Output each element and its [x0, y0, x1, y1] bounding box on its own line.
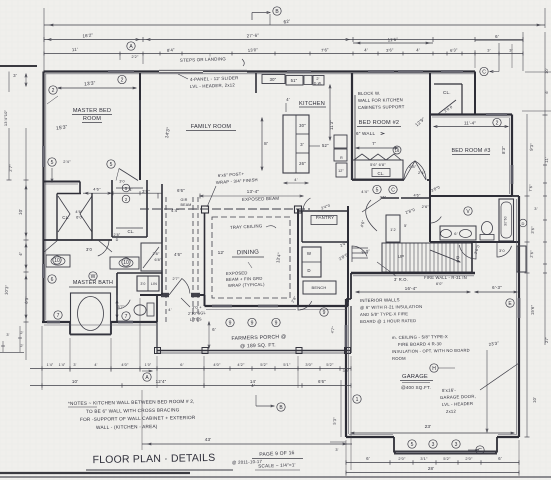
svg-text:5'6" 6'8": 5'6" 6'8"	[370, 162, 386, 167]
svg-text:D: D	[307, 268, 310, 273]
svg-text:3' R.O.: 3' R.O.	[394, 277, 408, 282]
sheet bottom-left dark edge	[0, 472, 190, 474]
svg-text:5': 5'	[404, 223, 407, 228]
svg-text:3'0": 3'0"	[343, 369, 350, 373]
svg-text:6'3": 6'3"	[450, 47, 458, 53]
master bed window west leader	[47, 96, 58, 104]
svg-text:PANTRY: PANTRY	[316, 215, 335, 220]
garage front left jog	[393, 437, 395, 453]
svg-text:11'6": 11'6"	[388, 37, 399, 43]
right dim verticals	[526, 114, 528, 437]
gir beam dashed line east pair	[192, 197, 194, 322]
svg-text:3'0: 3'0	[119, 180, 125, 184]
svg-text:2'10"SGL: 2'10"SGL	[188, 310, 207, 316]
slider door opening	[159, 70, 247, 72]
garage door sill (dark strip)	[394, 451, 497, 455]
garage west window	[345, 325, 348, 347]
svg-text:8': 8'	[264, 141, 268, 146]
svg-text:28': 28'	[428, 466, 434, 471]
block wall cabinets column	[334, 135, 347, 148]
svg-text:10'3": 10'3"	[4, 284, 10, 295]
svg-text:3'1": 3'1"	[420, 456, 428, 461]
master bed south wall + door opening 4'6	[44, 181, 80, 183]
vestibule 4'6 dim	[83, 192, 162, 194]
svg-text:5: 5	[376, 187, 379, 193]
garage 23-3 depth dim	[486, 350, 488, 430]
bedroom3 north wall	[430, 113, 512, 115]
garage west wall	[345, 299, 347, 437]
garage 6'-3 dim	[475, 291, 517, 293]
svg-text:7': 7'	[372, 141, 376, 146]
svg-text:4': 4'	[168, 307, 171, 312]
hall south wall y=198	[381, 197, 399, 199]
svg-text:4': 4'	[294, 177, 297, 182]
svg-text:BED ROOM #2: BED ROOM #2	[359, 120, 399, 126]
svg-text:FAMILY ROOM: FAMILY ROOM	[191, 124, 232, 130]
bench	[303, 281, 336, 294]
svg-text:3: 3	[455, 442, 458, 448]
master bed corner door leaf	[119, 169, 138, 181]
dining west wall lower	[204, 295, 206, 306]
svg-text:BEAM: BEAM	[181, 203, 192, 207]
svg-text:5'2": 5'2"	[260, 362, 268, 367]
43' overall dim	[142, 443, 352, 445]
svg-text:LIN: LIN	[151, 282, 157, 286]
svg-text:13'3": 13'3"	[84, 80, 96, 87]
master walk-in closet zigzag (hanging)	[58, 196, 92, 232]
washer dryer closet	[302, 247, 321, 277]
bath south wall inner line	[44, 324, 156, 326]
svg-text:9: 9	[323, 310, 326, 316]
svg-text:4': 4'	[94, 363, 97, 367]
svg-text:4': 4'	[251, 383, 255, 388]
3-RO leader	[377, 262, 396, 276]
left dim vertical main	[8, 128, 10, 180]
hall east wall to entry	[161, 273, 163, 295]
svg-text:2: 2	[496, 120, 499, 126]
svg-text:3'7": 3'7"	[117, 304, 125, 309]
svg-text:8'4": 8'4"	[167, 47, 175, 53]
svg-text:4'0": 4'0"	[213, 362, 221, 367]
windows master bath south	[47, 321, 60, 324]
window kitchen north	[287, 70, 311, 73]
bath2 vanity	[440, 226, 476, 240]
svg-text:@ 189 SQ. FT.: @ 189 SQ. FT.	[240, 342, 276, 349]
svg-text:D: D	[116, 238, 119, 242]
svg-text:W: W	[307, 251, 312, 256]
garage entry landing steps	[352, 247, 368, 249]
garage front wall right segment	[497, 436, 519, 438]
svg-text:2'4": 2'4"	[418, 170, 426, 175]
svg-text:26": 26"	[299, 161, 306, 166]
exterior wall NE jog vertical at x=475	[474, 72, 476, 116]
garage 23' dim	[351, 432, 514, 434]
dim guides left-bottom	[41, 326, 43, 390]
svg-text:3'0 +: 3'0 +	[192, 304, 203, 310]
kitchen/bedroom2 wall (6 inch)	[351, 73, 353, 180]
garage left horiz dim	[330, 441, 346, 443]
svg-text:4'6": 4'6"	[75, 209, 83, 214]
svg-text:BLOCK W.: BLOCK W.	[358, 91, 380, 96]
keynote B bottom	[277, 403, 285, 411]
staircase	[382, 243, 472, 272]
east wall jog at y=196	[512, 195, 519, 197]
porch post mid-east	[296, 348, 302, 354]
svg-text:7: 7	[125, 314, 128, 320]
svg-text:BOARD @ 1 HOUR RATED: BOARD @ 1 HOUR RATED	[360, 318, 416, 324]
svg-text:6" WALL: 6" WALL	[356, 131, 375, 136]
stair direction line	[430, 250, 460, 262]
svg-text:10: 10	[123, 260, 129, 266]
svg-text:12'4": 12'4"	[156, 379, 167, 384]
closet2 walls	[111, 180, 113, 237]
toilet (master)	[134, 305, 146, 315]
porch east edge	[350, 306, 352, 353]
svg-text:4'4": 4'4"	[361, 189, 369, 194]
svg-text:3': 3'	[6, 333, 9, 337]
svg-text:W: W	[91, 274, 96, 280]
svg-text:DINING: DINING	[237, 250, 260, 257]
svg-text:16'-4": 16'-4"	[405, 286, 418, 291]
svg-text:6'6": 6'6"	[318, 379, 326, 384]
family/kitchen wall stub	[255, 73, 257, 93]
svg-text:3': 3'	[335, 448, 338, 452]
svg-text:4': 4'	[286, 97, 290, 102]
svg-text:7'6": 7'6"	[321, 47, 329, 53]
svg-text:3: 3	[432, 442, 435, 448]
svg-text:1: 1	[356, 397, 359, 403]
svg-text:3'0": 3'0"	[305, 362, 313, 367]
top dim line row2	[44, 39, 523, 41]
dining exposed beam arrow	[248, 262, 252, 268]
hall door arcs	[362, 199, 381, 231]
svg-text:3': 3'	[73, 363, 76, 367]
svg-text:5: 5	[110, 162, 113, 168]
svg-text:CL.: CL.	[127, 229, 134, 234]
kitchen island 4ft dim	[284, 182, 308, 184]
kitchen island	[283, 115, 309, 173]
svg-text:15'6": 15'6"	[530, 304, 535, 315]
C keynote top right	[480, 67, 488, 75]
svg-text:3': 3'	[300, 142, 304, 147]
garden tub	[71, 293, 111, 334]
svg-text:6: 6	[51, 277, 54, 283]
garage bottom dim row2	[346, 472, 519, 474]
svg-text:62': 62'	[283, 19, 290, 25]
svg-text:1'0": 1'0"	[145, 363, 152, 367]
garage west wall upper jog	[346, 298, 351, 300]
bath toilet room walls	[117, 272, 162, 274]
svg-text:9: 9	[275, 320, 278, 326]
svg-text:7'6": 7'6"	[528, 184, 534, 192]
window NE corner	[441, 70, 463, 73]
garage keynotes	[408, 440, 416, 448]
svg-text:4': 4'	[364, 48, 368, 53]
porch post at entry	[202, 348, 208, 354]
bedroom3 wall inner lines	[432, 116, 510, 118]
svg-text:9'3": 9'3"	[529, 142, 535, 150]
kitchen 8' dim	[261, 118, 263, 170]
svg-text:6'6": 6'6"	[177, 188, 185, 193]
master closet west wall	[56, 194, 58, 241]
gir beam dashed line west	[165, 197, 167, 322]
svg-text:CL.: CL.	[62, 215, 69, 220]
keynote A top	[127, 42, 135, 50]
svg-text:AND 5/8" TYPE-X FIRE: AND 5/8" TYPE-X FIRE	[360, 311, 408, 317]
master bed 13'3 dim	[58, 87, 136, 89]
svg-text:CL.: CL.	[443, 90, 451, 95]
svg-text:16: 16	[395, 148, 400, 153]
svg-text:MASTER BED: MASTER BED	[73, 108, 111, 114]
hall west wall x=162	[161, 184, 163, 273]
tub alcove bump-out	[69, 322, 71, 335]
stair hall east wall	[471, 242, 473, 272]
dining south wall inner line	[206, 309, 296, 311]
svg-text:6': 6'	[545, 90, 549, 93]
svg-text:4'0": 4'0"	[121, 362, 129, 367]
svg-text:30": 30"	[299, 123, 306, 128]
svg-text:8'3": 8'3"	[501, 146, 506, 154]
svg-text:4'6": 4'6"	[413, 194, 421, 198]
dining south wall	[205, 305, 299, 307]
entry south wall w/ front door opening	[140, 294, 162, 296]
svg-text:11'-4": 11'-4"	[464, 121, 476, 126]
svg-text:3'0: 3'0	[140, 282, 145, 286]
keynote A bottom	[143, 373, 151, 381]
svg-text:2': 2'	[20, 344, 23, 348]
mud room south wall	[298, 305, 348, 307]
bedroom2 south wall with door	[352, 179, 404, 181]
svg-text:BENCH: BENCH	[311, 285, 326, 290]
garage door leader	[480, 363, 519, 390]
bath2 door	[430, 210, 441, 223]
svg-text:2: 2	[121, 77, 124, 83]
master closet east wall	[91, 193, 93, 240]
exterior wall top inner line	[45, 73, 474, 75]
garage wall inner lines	[348, 302, 350, 434]
svg-text:27': 27'	[544, 337, 549, 343]
sheet bottom edge line	[0, 476, 551, 478]
svg-text:6': 6'	[495, 34, 499, 39]
svg-text:UP: UP	[398, 254, 404, 259]
garage SE corner	[518, 431, 520, 437]
svg-text:3'6": 3'6"	[530, 226, 536, 234]
svg-text:5'1": 5'1"	[283, 362, 291, 367]
svg-text:23': 23'	[425, 424, 432, 430]
svg-text:D: D	[456, 255, 459, 260]
porch west edge	[156, 322, 158, 353]
bedroom2 door swing (double)	[404, 161, 426, 180]
master bath south wall right	[111, 321, 157, 323]
svg-text:6'0": 6'0"	[436, 282, 444, 286]
exterior wall west (master side)	[42, 72, 44, 323]
svg-text:5'3": 5'3"	[332, 417, 338, 425]
svg-text:10': 10'	[72, 379, 78, 384]
svg-text:2'6": 2'6"	[529, 250, 535, 258]
bedroom2 7' dim	[356, 147, 398, 149]
entry porch wall step	[156, 295, 158, 322]
front door jambs (dark)	[161, 293, 169, 297]
svg-text:3': 3'	[534, 206, 537, 211]
svg-text:10': 10'	[532, 397, 537, 403]
svg-text:13'0": 13'0"	[248, 47, 259, 53]
svg-text:9: 9	[251, 320, 254, 326]
svg-text:8'x16'-: 8'x16'-	[442, 387, 457, 392]
svg-text:ROOM: ROOM	[83, 116, 101, 122]
exterior wall east (bath2+garage)	[518, 196, 520, 431]
mud east exterior jog	[347, 299, 349, 306]
svg-text:GARAGE: GARAGE	[402, 374, 428, 380]
svg-text:C: C	[482, 69, 486, 75]
svg-text:KITCHEN: KITCHEN	[299, 101, 325, 107]
master bath north boundary	[44, 239, 112, 241]
garage side closet bump	[517, 246, 526, 272]
svg-text:3': 3'	[487, 48, 490, 53]
exposed beam line family/dining	[140, 208, 310, 210]
svg-text:10': 10'	[545, 68, 549, 74]
svg-text:4'6": 4'6"	[93, 187, 101, 192]
svg-text:1'4": 1'4"	[47, 363, 54, 367]
svg-text:6': 6'	[454, 231, 457, 236]
svg-text:2'4": 2'4"	[63, 159, 71, 164]
bath2 toilet	[482, 222, 493, 235]
front door swing	[169, 279, 190, 296]
svg-text:6': 6'	[212, 327, 216, 332]
family room height dim	[329, 85, 331, 140]
mud west wall upper	[297, 209, 299, 211]
svg-text:CABINETS SUPPORT: CABINETS SUPPORT	[358, 104, 405, 110]
svg-text:R: R	[340, 156, 343, 160]
exterior wall east bedroom3	[511, 115, 513, 197]
svg-text:11': 11'	[544, 157, 549, 163]
bedroom3 window east	[511, 165, 514, 184]
garage front right jog	[496, 437, 498, 453]
post at dining NE	[295, 206, 302, 213]
svg-text:1'2: 1'2	[390, 228, 396, 232]
dining tray ceiling dashed rect	[212, 217, 290, 298]
right dim ticks small	[543, 164, 547, 166]
svg-text:2'0": 2'0"	[398, 456, 406, 461]
svg-text:D: D	[522, 221, 525, 226]
svg-text:4'4": 4'4"	[171, 208, 179, 213]
svg-text:5'2": 5'2"	[326, 362, 334, 367]
svg-text:2'8": 2'8"	[114, 233, 121, 237]
svg-text:4': 4'	[416, 48, 420, 53]
hall closet box	[141, 243, 162, 271]
windows bedroom2 north	[368, 70, 394, 73]
svg-text:4'2": 4'2"	[237, 362, 245, 367]
dining east wall	[297, 209, 299, 306]
svg-text:51": 51"	[291, 78, 298, 83]
bedroom3 closet door diagonal	[438, 100, 456, 114]
svg-text:2'7": 2'7"	[8, 164, 14, 172]
svg-text:2'8": 2'8"	[409, 164, 417, 169]
window family room marks	[139, 100, 141, 120]
garage front wall left segment	[346, 436, 394, 438]
right notch dim 6'3'3	[525, 71, 551, 73]
bedroom3 south wall	[430, 195, 512, 197]
svg-text:3'0: 3'0	[86, 247, 93, 252]
svg-text:2x12: 2x12	[446, 409, 457, 414]
62' label + B	[273, 7, 281, 15]
svg-text:10': 10'	[18, 208, 24, 215]
svg-text:2'7": 2'7"	[172, 277, 180, 281]
svg-text:1'4": 1'4"	[59, 363, 66, 367]
master bath vanity right	[110, 257, 139, 269]
porch post SW	[155, 348, 161, 354]
svg-text:2'8": 2'8"	[152, 252, 160, 256]
porch post SE	[345, 348, 351, 354]
svg-text:5: 5	[411, 442, 414, 448]
svg-text:2': 2'	[316, 77, 319, 81]
post at dining NW	[202, 206, 209, 213]
bath2 tub 30x60	[499, 199, 514, 241]
svg-text:2'2": 2'2"	[131, 55, 139, 59]
top dim line 62'	[44, 24, 545, 26]
bedroom2/3 wall x=430	[429, 73, 431, 242]
svg-text:5'2": 5'2"	[443, 456, 451, 461]
svg-text:13'-4": 13'-4"	[247, 189, 260, 194]
bedroom3 11'-4 dim	[434, 126, 508, 128]
svg-text:11': 11'	[72, 47, 78, 53]
svg-text:2: 2	[52, 88, 55, 94]
dining window hatches south	[212, 305, 232, 308]
svg-text:MASTER BATH: MASTER BATH	[73, 280, 113, 286]
11'6 dim row2	[353, 42, 433, 44]
svg-text:3'6": 3'6"	[386, 47, 394, 53]
svg-text:4'6": 4'6"	[174, 252, 182, 257]
pantry label box	[311, 216, 337, 225]
garage east window	[518, 298, 521, 318]
master bath vanity left	[46, 255, 70, 267]
svg-text:BED ROOM #3: BED ROOM #3	[451, 148, 490, 154]
fire wall garage north	[351, 272, 475, 274]
closet shelf lines	[116, 187, 143, 189]
stair closet	[386, 215, 400, 242]
svg-text:6'3": 6'3"	[24, 295, 30, 303]
svg-text:WALL FOR KITCHEN: WALL FOR KITCHEN	[358, 97, 403, 103]
bath2 south wall	[430, 241, 519, 243]
bedroom3 window north	[486, 113, 507, 116]
svg-text:GIR: GIR	[181, 198, 188, 202]
svg-text:6'0: 6'0	[76, 215, 82, 220]
svg-text:3'0: 3'0	[499, 248, 505, 253]
windows master west wall	[42, 146, 45, 167]
svg-text:12': 12'	[218, 250, 225, 256]
mud south wall inner line	[300, 309, 346, 311]
svg-text:3'6": 3'6"	[142, 189, 150, 194]
exterior wall top (north)	[44, 70, 476, 72]
svg-text:2'6": 2'6"	[380, 196, 387, 200]
svg-text:ROOM: ROOM	[392, 356, 406, 361]
top-left corner mark	[0, 65, 37, 67]
master bath entry door	[92, 240, 109, 256]
laundry door arc	[298, 295, 312, 310]
svg-text:INTERIOR WALLS: INTERIOR WALLS	[360, 297, 400, 303]
svg-text:27'-6": 27'-6"	[247, 33, 260, 39]
svg-text:30": 30"	[270, 77, 277, 82]
svg-text:LITES: LITES	[190, 316, 202, 322]
top right corner dims	[474, 50, 476, 68]
svg-text:9: 9	[229, 320, 232, 326]
svg-text:m. CEILING - 5/8" TYPE-X: m. CEILING - 5/8" TYPE-X	[392, 334, 448, 340]
svg-text:6': 6'	[366, 456, 370, 461]
pantry door 2'4	[303, 198, 318, 211]
svg-text:6'8": 6'8"	[154, 258, 162, 262]
sheet left edge mark	[0, 352, 24, 354]
svg-text:10: 10	[54, 258, 60, 264]
pantry walls	[298, 210, 348, 212]
